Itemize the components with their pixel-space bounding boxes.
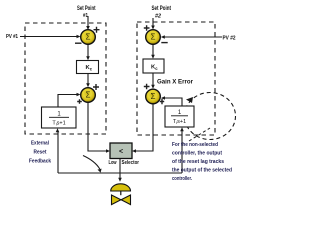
svg-text:Kc: Kc bbox=[151, 65, 158, 71]
svg-text:controller, the output: controller, the output bbox=[172, 151, 222, 157]
svg-text:Σ: Σ bbox=[151, 92, 156, 101]
svg-text:Selector: Selector bbox=[122, 160, 140, 166]
svg-text:Low: Low bbox=[109, 160, 117, 166]
svg-text:For the non-selected: For the non-selected bbox=[172, 142, 218, 148]
svg-text:of the reset lag tracks: of the reset lag tracks bbox=[172, 159, 224, 165]
svg-text:PV #1: PV #1 bbox=[6, 34, 18, 40]
svg-text:External: External bbox=[31, 141, 49, 147]
svg-text:controller.: controller. bbox=[172, 176, 192, 182]
svg-text:Feedback: Feedback bbox=[29, 159, 52, 165]
svg-text:Kc: Kc bbox=[86, 65, 93, 71]
svg-text:#2: #2 bbox=[155, 14, 161, 20]
svg-text:Set Point: Set Point bbox=[152, 6, 172, 12]
svg-text:#1: #1 bbox=[83, 13, 88, 19]
svg-text:Σ: Σ bbox=[86, 91, 91, 100]
svg-text:Σ: Σ bbox=[86, 33, 91, 42]
svg-text:Gain X Error: Gain X Error bbox=[157, 80, 194, 86]
svg-text:Tis+1: Tis+1 bbox=[52, 121, 65, 127]
svg-text:<: < bbox=[119, 149, 123, 156]
svg-text:Set Point: Set Point bbox=[77, 6, 96, 12]
svg-text:Reset: Reset bbox=[34, 150, 47, 156]
svg-text:Σ: Σ bbox=[151, 33, 156, 42]
svg-text:the output of the selected: the output of the selected bbox=[172, 168, 232, 174]
svg-text:Tis+1: Tis+1 bbox=[173, 119, 186, 125]
svg-text:PV #2: PV #2 bbox=[223, 36, 236, 42]
